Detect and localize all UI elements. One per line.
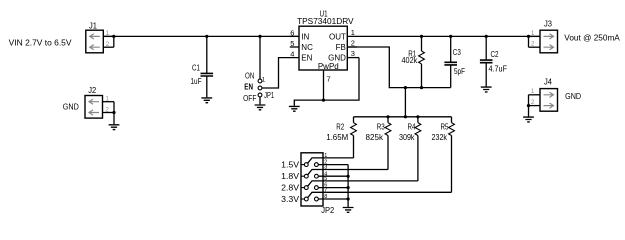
svg-text:R2: R2	[336, 122, 344, 131]
wire VIN rail	[103, 35, 299, 37]
junction J1 pin2	[112, 35, 115, 38]
svg-text:R3: R3	[377, 122, 385, 131]
value 1.65M	[326, 133, 348, 142]
junction pin7	[322, 99, 325, 102]
net label VIN	[9, 38, 72, 47]
svg-text:J3: J3	[544, 19, 553, 28]
label R4	[408, 122, 416, 131]
label ON	[245, 72, 254, 81]
net label 1.8V	[281, 172, 300, 181]
value 5pF	[454, 67, 465, 76]
connector J4	[529, 89, 558, 112]
resistor R2	[351, 117, 357, 158]
ground JP2	[343, 208, 354, 213]
junction JP2 gnd	[347, 175, 350, 178]
wire J1 pin2 loop	[113, 36, 115, 47]
label U1	[320, 10, 328, 19]
net label 2.8V	[281, 184, 300, 193]
svg-text:7: 7	[327, 75, 331, 84]
svg-text:402k: 402k	[402, 56, 419, 65]
pin number 1 (JP1)	[262, 78, 266, 84]
svg-text:825k: 825k	[366, 133, 384, 142]
svg-text:5: 5	[290, 39, 294, 48]
label JP1	[264, 91, 274, 100]
net label GND (J4)	[565, 92, 581, 101]
ground C1	[201, 98, 212, 103]
svg-text:PwPd: PwPd	[318, 62, 339, 71]
svg-text:309k: 309k	[399, 133, 415, 142]
value 232k	[432, 133, 448, 142]
label J4	[544, 78, 553, 87]
label C2	[491, 50, 499, 59]
value 1uF	[191, 77, 202, 86]
svg-text:FB: FB	[336, 43, 346, 52]
svg-text:2: 2	[351, 38, 355, 47]
connector J1	[86, 30, 114, 53]
junction R3 top	[386, 115, 389, 118]
value TPS73401DRV	[297, 17, 354, 26]
label R1	[408, 50, 416, 59]
connector J2	[85, 96, 114, 119]
wire JP2 pin3 to R3	[308, 170, 388, 175]
svg-text:R4: R4	[408, 122, 416, 131]
wire JP2 pin1 to R2	[308, 158, 354, 163]
svg-text:TPS73401DRV: TPS73401DRV	[297, 17, 354, 26]
svg-text:1: 1	[351, 28, 355, 37]
svg-text:J2: J2	[88, 86, 97, 95]
jumper block JP2	[301, 153, 323, 206]
svg-text:GND: GND	[63, 103, 79, 112]
svg-text:R5: R5	[441, 122, 449, 131]
net label Vout @ 250mA	[564, 33, 620, 42]
label R2	[336, 122, 344, 131]
pin number 8 (JP2)	[324, 194, 327, 200]
svg-text:ON: ON	[245, 72, 254, 81]
capacitor C3	[444, 36, 457, 87]
wire JP2 ground bus	[347, 165, 349, 207]
value 4.7uF	[489, 65, 508, 74]
label R3	[377, 122, 385, 131]
junction R1 top	[420, 35, 423, 38]
svg-text:5pF: 5pF	[454, 67, 465, 76]
junction R1 bottom	[420, 86, 423, 89]
wire divider rail	[354, 116, 452, 118]
net label GND (J2)	[63, 103, 79, 112]
svg-text:232k: 232k	[432, 133, 448, 142]
pin number 5 (JP2)	[324, 176, 327, 182]
label R5	[441, 122, 449, 131]
junction C3 top	[449, 35, 452, 38]
resistor R4	[415, 117, 421, 181]
wire JP1 ON to VIN	[259, 36, 261, 79]
svg-text:EN: EN	[301, 54, 312, 63]
svg-text:NC: NC	[301, 43, 313, 52]
capacitor C2	[480, 36, 493, 86]
wire JP1 OFF down	[259, 97, 261, 105]
svg-text:GND: GND	[565, 92, 581, 101]
svg-text:J1: J1	[89, 21, 98, 30]
jumper JP1	[258, 79, 262, 97]
svg-text:EN: EN	[244, 82, 253, 91]
ground J4	[523, 117, 534, 122]
wire JP1 EN to U1 EN	[262, 58, 299, 88]
pin number 6 (JP2)	[324, 183, 327, 189]
label J3	[544, 19, 553, 28]
svg-text:4.7uF: 4.7uF	[489, 65, 508, 74]
svg-text:3.3V: 3.3V	[281, 195, 300, 204]
pin number 1 (JP2)	[324, 153, 327, 159]
svg-text:1uF: 1uF	[191, 77, 202, 86]
svg-text:1.5V: 1.5V	[281, 161, 300, 170]
wire JP2 pin8 to GND	[318, 198, 348, 200]
svg-text:J4: J4	[544, 78, 553, 87]
svg-text:C1: C1	[192, 63, 200, 72]
pin number 4 (JP2)	[324, 171, 327, 177]
net label 1.5V	[281, 161, 300, 170]
value 309k	[399, 133, 415, 142]
svg-text:JP2: JP2	[321, 206, 335, 215]
svg-text:2.8V: 2.8V	[281, 184, 300, 193]
wire JP2 pin7 to R5	[308, 192, 452, 197]
ground JP1 OFF	[255, 105, 266, 110]
wire J2 to ground	[113, 102, 115, 125]
ground C2	[481, 87, 492, 92]
svg-text:1.8V: 1.8V	[281, 172, 300, 181]
label J2	[88, 86, 97, 95]
value 402k	[402, 56, 419, 65]
svg-text:6: 6	[290, 28, 294, 37]
label JP2	[321, 206, 335, 215]
label J1	[89, 21, 98, 30]
junction J4 pin2	[527, 104, 530, 107]
IC U1 TPS73401DRV	[290, 26, 359, 83]
net label 3.3V	[281, 195, 300, 204]
wire JP2 pin2 to GND	[318, 164, 348, 166]
resistor R5	[449, 117, 455, 193]
junction C1 top	[205, 35, 208, 38]
capacitor C1	[201, 36, 214, 97]
pin number 7 (JP2)	[324, 187, 327, 193]
junction JP2 gnd	[347, 197, 350, 200]
pin number 2 (JP2)	[324, 160, 327, 166]
label C3	[453, 48, 461, 57]
junction R4 top	[416, 115, 419, 118]
wire JP2 pin5 to R4	[308, 181, 418, 186]
svg-text:C3: C3	[453, 48, 461, 57]
svg-text:C2: C2	[491, 50, 499, 59]
wire JP2 pin6 to GND	[318, 187, 348, 189]
svg-text:OFF: OFF	[243, 94, 256, 103]
wire OUT rail U1 to J3	[347, 35, 540, 37]
resistor R1	[419, 36, 425, 87]
junction FB drop	[404, 86, 407, 89]
junction J2 pin2	[112, 111, 115, 114]
junction ON/VIN	[258, 35, 261, 38]
junction J3 pin2	[527, 35, 530, 38]
pin number 3 (JP2)	[324, 165, 327, 171]
wire U1 pin7	[323, 70, 325, 100]
svg-text:3: 3	[351, 49, 355, 58]
svg-text:Vout @ 250mA: Vout @ 250mA	[564, 33, 620, 42]
wire JP2 pin4 to GND	[318, 175, 348, 177]
wire FB net	[347, 47, 450, 88]
wire J4 to ground	[528, 95, 530, 117]
svg-text:VIN 2.7V to 6.5V: VIN 2.7V to 6.5V	[9, 38, 72, 47]
label OFF	[243, 94, 256, 103]
ground J2	[109, 125, 120, 130]
svg-text:IN: IN	[301, 32, 309, 41]
wire FB drop to divider	[404, 88, 406, 117]
junction C2 top	[485, 35, 488, 38]
svg-text:JP1: JP1	[264, 91, 274, 100]
svg-text:4: 4	[290, 50, 294, 59]
junction JP2 gnd	[347, 186, 350, 189]
wire U1 GND return	[294, 58, 359, 106]
svg-text:1.65M: 1.65M	[326, 133, 348, 142]
resistor R3	[385, 117, 391, 170]
connector J3	[529, 30, 558, 53]
label C1	[192, 63, 200, 72]
value 825k	[366, 133, 384, 142]
label EN	[244, 82, 253, 91]
wire J3 pin2 loop	[528, 36, 530, 47]
svg-text:OUT: OUT	[329, 32, 346, 41]
junction FB drop bottom	[404, 115, 407, 118]
ground U1	[289, 106, 300, 111]
